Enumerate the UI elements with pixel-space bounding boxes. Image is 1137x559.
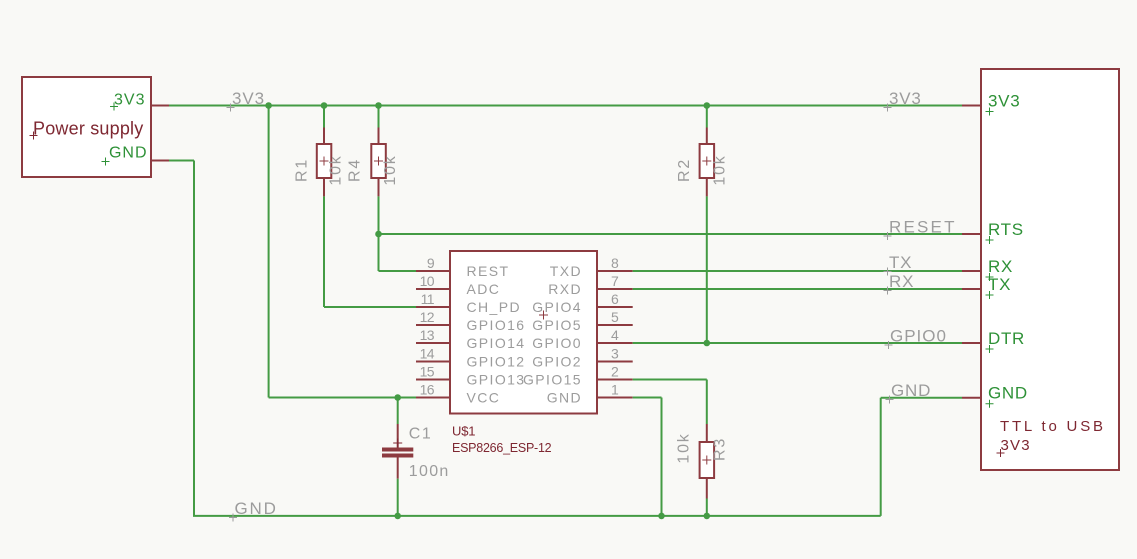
pin name GPIO2 [532,354,582,370]
pin name GPIO13 [467,372,526,388]
label U$1 [452,424,475,439]
svg-text:TX: TX [988,275,1011,294]
pin 11 stub of U$1 [416,306,450,308]
wire GND bottom rail [193,515,881,517]
pin name GPIO4 [532,299,582,315]
svg-text:R3: R3 [712,437,729,461]
wire REST horizontal to pin 9 [379,270,417,272]
label 3V3 left [227,89,265,112]
pin 3V3 of power supply [110,92,169,111]
pin name GPIO12 [467,354,526,370]
wire GND right riser to TTL [880,398,882,516]
pin 9 stub of U$1 [416,270,450,272]
pin number 6 [611,291,619,307]
pin number 13 [420,327,435,343]
label C1 name [409,426,432,443]
wire VCC horizontal to pin 16 [269,397,416,399]
pin RTS of TTL to USB [962,220,1024,244]
svg-text:RTS: RTS [988,220,1024,239]
label 3V3 right [884,89,922,112]
svg-text:GPIO0: GPIO0 [890,327,947,346]
svg-text:ADC: ADC [467,281,501,297]
pin RX of TTL to USB [962,257,1013,281]
label R4 value 10k [382,154,399,185]
svg-text:GPIO4: GPIO4 [532,299,582,315]
pin number 8 [611,255,619,271]
pin name GPIO16 [467,317,526,333]
svg-text:3V3: 3V3 [1001,437,1031,454]
wire 3V3 to R2 top lead [706,106,708,128]
junction 3V3/R2 [704,102,711,109]
junction 3V3/R1 [321,102,328,109]
pin name ADC [467,281,501,297]
TTL to USB module [981,69,1119,470]
label R2 value 10k [712,154,729,185]
junction 3V3/VCC drop [265,102,272,109]
wire GPIO0 net pin4 to TTL DTR [633,342,962,344]
svg-text:3V3: 3V3 [114,92,145,109]
pin GND of TTL to USB [962,384,1028,408]
svg-text:16: 16 [420,382,435,398]
svg-text:3V3: 3V3 [988,92,1020,111]
pin number 4 [611,327,619,343]
pin DTR of TTL to USB [962,329,1025,353]
pin TX of TTL to USB [962,275,1011,299]
svg-text:R2: R2 [676,158,693,182]
svg-text:10k: 10k [382,154,399,185]
label R4 name [347,158,364,182]
wire GND left riser [193,161,195,516]
label RESET [884,218,957,241]
junction VCC/C1 [394,394,401,401]
junction GND/pin1 drop [658,513,665,520]
capacitor C1 100n [382,424,413,479]
svg-text:9: 9 [427,255,435,271]
svg-text:100n: 100n [409,463,450,480]
pin number 7 [611,273,619,289]
svg-text:RX: RX [988,257,1013,276]
pin name GPIO0 [532,335,582,351]
svg-text:10: 10 [420,273,435,289]
pin name GPIO5 [532,317,582,333]
label GND at TTL [886,381,932,404]
svg-text:DTR: DTR [988,329,1025,348]
pin name GND [547,390,582,406]
svg-text:10k: 10k [328,154,345,185]
wire 3V3 horizontal rail [169,105,962,107]
svg-text:1: 1 [611,382,619,398]
svg-text:Power supply: Power supply [33,119,143,139]
svg-text:GPIO5: GPIO5 [532,317,582,333]
wire GND horizontal to TTL GND pin [881,397,962,399]
wire GPIO15 net pin2 horizontal [633,379,707,381]
label R3 name [712,437,729,461]
wire R1 to CH_PD horizontal [324,306,416,308]
svg-text:11: 11 [421,291,435,307]
svg-text:GND: GND [547,390,582,406]
svg-text:R1: R1 [294,158,311,182]
svg-text:GPIO16: GPIO16 [467,317,526,333]
svg-text:VCC: VCC [467,390,501,406]
wire VCC to C1 [397,398,399,425]
wire 3V3 to R1 top lead [323,106,325,128]
pin 3V3 of TTL to USB [962,92,1020,116]
svg-text:TX: TX [889,253,912,272]
label TX [884,253,913,276]
pin name GPIO14 [467,335,526,351]
wire RX net pin7 to TTL TX [633,288,962,290]
svg-text:C1: C1 [409,426,432,443]
pin name TXD [550,263,582,279]
pin 7 stub of U$1 [597,288,633,290]
wire R3 to GND rail [706,499,708,516]
label GND rail [229,499,278,522]
svg-text:U$1: U$1 [452,424,475,439]
resistor R2 10k [700,128,715,197]
svg-text:7: 7 [611,273,619,289]
pin name RXD [548,281,582,297]
wire RESET net to TTL RTS [379,233,963,235]
svg-text:GPIO0: GPIO0 [532,335,582,351]
label R2 name [676,158,693,182]
svg-text:GPIO15: GPIO15 [523,372,582,388]
pin number 11 [421,291,435,307]
pin 16 stub of U$1 [416,397,450,399]
label RX [884,272,915,295]
wire GND net pin1 horizontal [633,397,662,399]
svg-text:3: 3 [611,346,619,362]
wire R4 to REST vertical [378,196,380,271]
svg-text:TTL to USB: TTL to USB [1000,418,1106,435]
wire GPIO15 net down to R3 [706,380,708,425]
svg-text:13: 13 [420,327,435,343]
svg-text:12: 12 [420,309,435,325]
pin number 3 [611,346,619,362]
svg-text:3V3: 3V3 [889,89,922,108]
pin name CH_PD [467,299,521,315]
svg-text:14: 14 [420,346,435,362]
wire power GND horizontal [169,160,194,162]
svg-text:GND: GND [891,381,931,400]
junction GPIO0/R2 [704,340,711,347]
svg-text:4: 4 [611,327,619,343]
pin name GPIO15 [523,372,582,388]
wire R2 to GPIO0 net vertical [706,196,708,343]
pin number 1 [611,382,619,398]
wire GND net pin1 drop [661,398,663,516]
IC U$1 ESP8266_ESP-12 body [450,251,597,414]
resistor R3 10k [700,424,715,499]
pin number 15 [420,364,435,380]
svg-text:6: 6 [611,291,619,307]
svg-text:ESP8266_ESP-12: ESP8266_ESP-12 [452,441,552,455]
resistor R1 10k [317,128,332,197]
svg-text:8: 8 [611,255,619,271]
svg-text:10k: 10k [676,432,693,463]
pin 10 stub of U$1 [416,288,450,290]
pin 4 stub of U$1 [597,342,633,344]
svg-text:10k: 10k [712,154,729,185]
pin number 5 [611,309,619,325]
label value ESP8266_ESP-12 [452,441,552,455]
wire TX net pin8 to TTL RX [633,270,962,272]
svg-text:GPIO2: GPIO2 [532,354,582,370]
pin name REST [467,263,510,279]
svg-text:CH_PD: CH_PD [467,299,521,315]
svg-text:5: 5 [611,309,619,325]
junction 3V3/R4 [375,102,382,109]
pin 3 stub of U$1 [597,361,633,363]
svg-text:RX: RX [889,272,914,291]
wire 3V3 to R4 top lead [378,106,380,128]
junction GND/R3 [704,513,711,520]
wire VCC vertical drop [268,106,270,398]
svg-text:RXD: RXD [548,281,582,297]
svg-text:GND: GND [235,499,278,518]
wire C1 to GND rail [397,479,399,516]
resistor R4 10k [371,128,386,197]
svg-text:R4: R4 [347,158,364,182]
pin 14 stub of U$1 [416,361,450,363]
svg-text:15: 15 [420,364,435,380]
svg-text:2: 2 [611,364,619,380]
svg-text:GND: GND [988,384,1028,403]
label GPIO0 [885,327,947,350]
pin number 9 [427,255,435,271]
pin name VCC [467,390,501,406]
pin 6 stub of U$1 [597,306,633,308]
svg-text:REST: REST [467,263,510,279]
pin 8 stub of U$1 [597,270,633,272]
pin 12 stub of U$1 [416,324,450,326]
label R3 value 10k [676,432,693,463]
junction GND/C1 [394,513,401,520]
svg-text:RESET: RESET [889,218,957,237]
label R1 value 10k [328,154,345,185]
pin number 2 [611,364,619,380]
pin number 12 [420,309,435,325]
pin 2 stub of U$1 [597,379,633,381]
svg-text:GND: GND [109,145,148,162]
pin number 16 [420,382,435,398]
label R1 name [294,158,311,182]
pin number 10 [420,273,435,289]
label C1 value 100n [409,463,450,480]
junction R4/RESET net [375,231,382,238]
pin 13 stub of U$1 [416,342,450,344]
svg-text:TXD: TXD [550,263,582,279]
pin GND of power supply [102,145,170,166]
power supply module [22,77,151,177]
pin number 14 [420,346,435,362]
svg-text:GPIO14: GPIO14 [467,335,526,351]
svg-text:GPIO12: GPIO12 [467,354,526,370]
pin 15 stub of U$1 [416,379,450,381]
svg-text:GPIO13: GPIO13 [467,372,526,388]
pin 1 stub of U$1 [597,397,633,399]
svg-text:3V3: 3V3 [232,89,265,108]
pin 5 stub of U$1 [597,324,633,326]
wire R1 to CH_PD vertical [323,196,325,307]
